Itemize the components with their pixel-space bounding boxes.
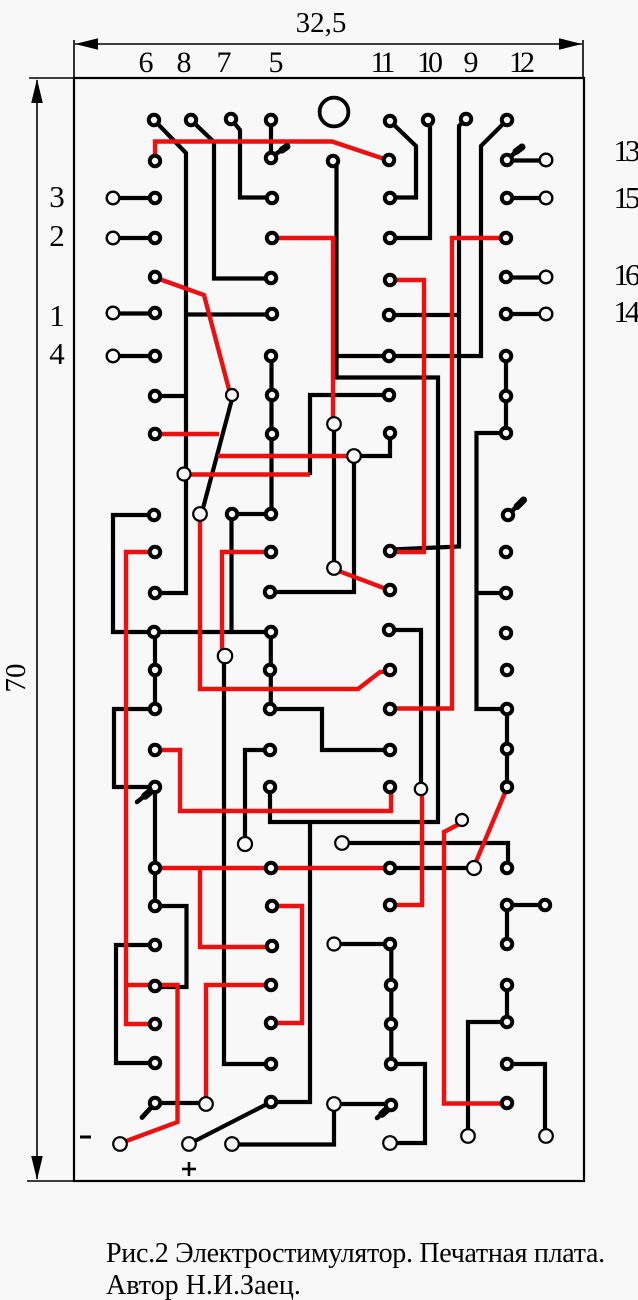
svg-text:Рис.2 Электростимулятор. Печат: Рис.2 Электростимулятор. Печатная плата.: [106, 1238, 605, 1269]
svg-text:3: 3: [49, 179, 65, 214]
svg-text:5: 5: [269, 46, 284, 79]
svg-text:12: 12: [509, 46, 534, 79]
svg-text:14: 14: [614, 294, 638, 329]
svg-text:9: 9: [464, 46, 479, 79]
svg-text:2: 2: [49, 218, 65, 253]
svg-text:15: 15: [614, 180, 638, 215]
svg-text:8: 8: [177, 46, 192, 79]
svg-text:7: 7: [217, 46, 232, 79]
svg-text:11: 11: [371, 46, 395, 79]
svg-text:6: 6: [139, 46, 154, 79]
svg-text:4: 4: [49, 336, 65, 371]
svg-text:1: 1: [49, 298, 65, 333]
svg-text:10: 10: [417, 46, 442, 79]
svg-text:32,5: 32,5: [296, 7, 347, 39]
svg-text:13: 13: [614, 133, 638, 168]
svg-text:70: 70: [0, 664, 32, 693]
svg-text:Автор Н.И.Заец.: Автор Н.И.Заец.: [106, 1270, 301, 1300]
svg-text:16: 16: [614, 257, 638, 292]
